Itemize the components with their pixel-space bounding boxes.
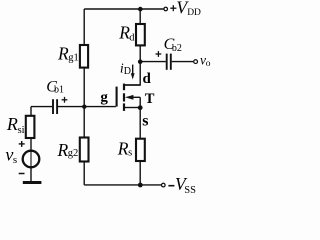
svg-text:g: g	[100, 90, 108, 106]
wire vs source to ground	[30, 168, 32, 182]
svg-text:g2: g2	[68, 148, 79, 159]
svg-text:s: s	[142, 113, 148, 130]
plus sign of +VDD	[170, 5, 176, 11]
wire left branch mid (Rg1 to Rg2 through gate node)	[83, 68, 85, 138]
svg-text:d: d	[129, 32, 135, 43]
plus sign of vs	[19, 141, 25, 147]
wire input stub to Rsi	[30, 107, 32, 116]
transistor T channel middle bar (body)	[123, 93, 125, 101]
minus sign of -VSS	[168, 185, 174, 187]
svg-text:d: d	[143, 71, 152, 87]
svg-text:b1: b1	[54, 85, 64, 96]
svg-text:R: R	[117, 139, 129, 159]
wire left branch bottom (Rg2 to bottom rail)	[83, 162, 85, 185]
capacitor Cb2 plates	[167, 54, 171, 70]
resistor Rs	[136, 139, 145, 161]
svg-text:SS: SS	[184, 185, 196, 196]
ground	[23, 181, 42, 184]
resistor Rg2	[80, 138, 89, 162]
svg-text:s: s	[128, 147, 132, 158]
svg-text:o: o	[206, 59, 211, 69]
plus sign of Cb2	[156, 51, 162, 57]
svg-text:R: R	[57, 44, 69, 64]
wire Rd to drain node	[139, 45, 141, 61]
source vs circle	[23, 151, 40, 168]
svg-text:DD: DD	[187, 8, 201, 18]
wire source lead	[125, 107, 140, 109]
node dot drain	[138, 59, 143, 64]
svg-text:D: D	[124, 66, 131, 77]
transistor T channel top bar (drain)	[123, 84, 125, 91]
wire Rsi to vs source	[30, 138, 32, 150]
resistor Rg1	[80, 45, 88, 68]
wire drain node down and left to channel top bar	[125, 62, 140, 85]
wire Rs to bottom rail	[139, 161, 141, 185]
transistor T channel bottom bar (source)	[123, 103, 125, 111]
wire source node to Rs	[139, 108, 141, 139]
wire left branch top (rail to Rg1)	[83, 9, 85, 45]
wire Cb2 to vo terminal	[172, 61, 194, 63]
node dot bottom rail / Rs	[138, 183, 143, 188]
wire body lead vertical to source node	[139, 97, 141, 107]
resistor Rd	[136, 24, 145, 45]
resistor Rsi	[26, 116, 35, 138]
plus sign of Cb1	[62, 97, 68, 103]
svg-text:s: s	[13, 154, 17, 166]
svg-text:T: T	[145, 91, 155, 107]
wire drain node to Cb2	[140, 61, 166, 63]
node dot source	[138, 105, 143, 110]
wire right branch top (rail to Rd)	[139, 9, 141, 24]
wire input to Cb1	[31, 106, 52, 108]
transistor T drain lead	[125, 84, 140, 86]
svg-text:g1: g1	[68, 52, 79, 63]
wire Cb1 to gate (through gate node)	[58, 106, 116, 108]
minus sign of vs	[19, 173, 25, 175]
terminal +VDD	[164, 7, 168, 11]
node dot gate	[82, 105, 86, 109]
terminal vo	[194, 60, 198, 64]
wire bottom rail	[84, 184, 161, 186]
transistor T body lead with arrow	[129, 96, 140, 98]
capacitor Cb1 plates	[53, 99, 57, 114]
vs source lead through circle	[30, 150, 32, 168]
svg-text:b2: b2	[172, 43, 182, 54]
transistor T (NMOS) gate line	[116, 87, 118, 107]
svg-text:R: R	[6, 114, 18, 134]
node dot top rail / Rd	[138, 7, 143, 12]
terminal -VSS	[162, 183, 166, 187]
svg-text:si: si	[18, 125, 25, 136]
current arrow iD	[132, 65, 134, 74]
wire top rail	[84, 8, 163, 10]
svg-text:R: R	[57, 140, 69, 160]
